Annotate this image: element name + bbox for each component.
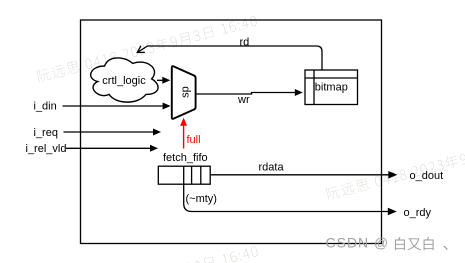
svg-text:(~mty): (~mty) [186, 193, 217, 205]
watermark line C (bottom tail) [37, 244, 258, 263]
wire wr (mux to bitmap) [196, 93, 295, 95]
svg-text:o_dout: o_dout [410, 170, 444, 182]
svg-text:i_req: i_req [34, 127, 58, 139]
bitmap inner hline [305, 77, 358, 79]
svg-text:fetch_fifo: fetch_fifo [163, 152, 208, 164]
bitmap inner vline [313, 70, 315, 105]
wire i_req [64, 131, 154, 133]
mux sp [172, 66, 196, 119]
wire i_din [63, 105, 163, 107]
svg-text:i_rel_vld: i_rel_vld [26, 143, 67, 155]
outer box [81, 20, 382, 244]
svg-text:CSDN @: CSDN @ [326, 235, 390, 251]
bitmap box [305, 70, 358, 105]
svg-text:sp: sp [180, 86, 192, 98]
open arrowhead rd [137, 46, 145, 53]
cloud crtl_logic [91, 58, 158, 102]
fifo box fetch_fifo [158, 166, 210, 184]
fifo divider 1 [183, 166, 185, 184]
wire i_rel_vld [66, 147, 150, 149]
arrow full (red) [183, 126, 185, 149]
svg-text:wr: wr [237, 94, 250, 106]
wire cloud to mux [157, 79, 163, 81]
watermark line A (top) [36, 14, 257, 83]
watermark line B (right) [326, 131, 465, 200]
wire mty (fifo bottom to o_rdy) [184, 184, 389, 211]
svg-text:rd: rd [240, 37, 250, 49]
fifo divider 3 [200, 166, 202, 184]
svg-text:o_rdy: o_rdy [404, 207, 432, 219]
svg-text:i_din: i_din [34, 101, 57, 113]
fifo divider 2 [191, 166, 193, 184]
wire rdata (fifo to o_dout) [210, 174, 389, 176]
wire rd (bitmap to cloud) [138, 46, 322, 70]
svg-text:full: full [187, 134, 201, 146]
svg-text:bitmap: bitmap [315, 82, 348, 94]
svg-text:rdata: rdata [259, 162, 285, 174]
svg-text:crtl_logic: crtl_logic [102, 75, 146, 87]
